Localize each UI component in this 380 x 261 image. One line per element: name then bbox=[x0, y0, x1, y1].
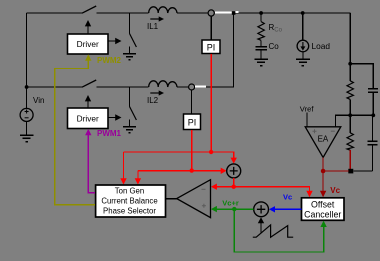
wire rail to Load bbox=[302, 13, 304, 40]
node junction Vc+r (green) bbox=[232, 207, 236, 211]
svg-text:Load: Load bbox=[312, 41, 331, 51]
arrow red into Ton Gen (line1) bbox=[120, 178, 126, 184]
resistor Rco bbox=[258, 13, 264, 46]
svg-text:Vc: Vc bbox=[283, 192, 292, 201]
node junction feedback mid left bbox=[348, 113, 352, 117]
arrow red into summer left bbox=[221, 168, 227, 174]
wire left input rail vertical bbox=[26, 13, 28, 108]
wire sense node 2 to PI2 bbox=[191, 90, 193, 114]
node junction feedback mid right bbox=[371, 113, 375, 117]
wire Vc blue from offset canceller to ramp summer bbox=[274, 208, 301, 210]
wire Load to ground bbox=[302, 52, 304, 59]
wire feedback mid tap to EA bbox=[336, 115, 374, 126]
arrow red into comparator minus bbox=[211, 184, 217, 190]
summing junction S6 (ramp adder) bbox=[254, 202, 269, 217]
capacitor C2 lower feedback bbox=[353, 115, 377, 171]
arrow PWM1 into driver U2 (purple) bbox=[85, 129, 91, 135]
capacitor Co bbox=[255, 47, 266, 50]
node Vin junction bbox=[25, 85, 29, 89]
inductor IL2 bbox=[149, 81, 177, 87]
arrow Vc into offset canceller (dark red) bbox=[320, 191, 326, 197]
wire EA output (dark red) bbox=[323, 157, 348, 191]
wire top rail to inductor bbox=[96, 12, 148, 14]
wire PI1 output (red) bbox=[210, 54, 212, 152]
svg-text:IL2: IL2 bbox=[147, 96, 159, 105]
node junction PI2 on line2 (red) bbox=[190, 168, 194, 172]
wire green feedback to offset canceller bottom bbox=[234, 209, 323, 252]
wire Vref to EA plus input bbox=[306, 112, 308, 126]
comparator U3 bbox=[177, 180, 211, 218]
driver U2 box bbox=[68, 108, 109, 129]
switch S1 (phase 1 high-side) bbox=[82, 6, 96, 13]
PI block 2 bbox=[184, 114, 201, 130]
svg-text:EA: EA bbox=[318, 135, 329, 144]
svg-text:Canceller: Canceller bbox=[304, 209, 341, 219]
wire comparator output to Ton Gen bbox=[166, 198, 178, 200]
capacitor C1 upper feedback bbox=[368, 89, 378, 116]
svg-text:Driver: Driver bbox=[77, 39, 99, 49]
svg-text:PI: PI bbox=[188, 118, 197, 128]
switch S2 (phase 2 high-side) bbox=[82, 80, 96, 87]
node junction summer output (red) bbox=[232, 185, 236, 189]
wire Co to ground bbox=[260, 50, 262, 59]
wire PWM1 net (purple) bbox=[88, 134, 95, 193]
resistor R1 upper feedback bbox=[347, 64, 353, 116]
resistor R2 lower feedback bbox=[347, 115, 353, 150]
arrow green into offset canceller bottom bbox=[320, 221, 326, 227]
arrow red into summer top bbox=[231, 158, 237, 164]
wire resistor R2 to bottom node (dark red) bbox=[349, 150, 351, 169]
arrow red into offset canceller top bbox=[306, 191, 312, 197]
source Vin bbox=[20, 108, 33, 121]
current source Load bbox=[297, 40, 309, 52]
wire top rail left segment bbox=[27, 12, 82, 14]
svg-text:Vin: Vin bbox=[33, 96, 44, 105]
wire red line2 to summer and Ton Gen bbox=[138, 171, 222, 179]
svg-text:Offset: Offset bbox=[311, 199, 335, 209]
wire sawtooth to ramp summer bbox=[260, 223, 262, 234]
wire PWM2 net (olive) bbox=[55, 60, 95, 205]
svg-text:Co: Co bbox=[274, 27, 282, 33]
svg-text:Driver: Driver bbox=[77, 113, 99, 123]
driver U1 gate arrow up bbox=[85, 20, 91, 34]
wire phase 2 rail left segment bbox=[27, 86, 82, 88]
arrow sawtooth into ramp summer bbox=[258, 217, 264, 223]
ground below sync switch 1 bbox=[123, 54, 136, 60]
switch S3 sync phase 1 bbox=[130, 13, 137, 53]
svg-text:Ton Gen: Ton Gen bbox=[115, 187, 144, 196]
node sense point phase 1 bbox=[208, 10, 214, 16]
wire inductor2 to sense node bbox=[177, 86, 188, 88]
switch S4 sync phase 2 bbox=[130, 87, 137, 127]
svg-text:PWM2: PWM2 bbox=[97, 56, 122, 65]
node junction Rco bbox=[259, 11, 263, 15]
ground below Load bbox=[296, 59, 310, 65]
node junction Load bbox=[301, 11, 305, 15]
arrow red into Ton Gen (line2) bbox=[135, 178, 141, 184]
arrow blue into ramp summer bbox=[269, 206, 275, 212]
wire white highlight segment on phase 2 rail bbox=[195, 85, 206, 87]
wire Vc+r green to comparator plus bbox=[216, 208, 254, 210]
wire red line1 to summer and Ton Gen bbox=[124, 152, 234, 179]
arrow green into comparator plus bbox=[211, 206, 217, 212]
IL2 current arrow bbox=[150, 90, 164, 95]
node junction PI1 on line1 (red) bbox=[209, 150, 213, 154]
wire PI2 output (red) bbox=[191, 130, 193, 171]
ground below Vin bbox=[20, 135, 34, 141]
svg-text:Vc: Vc bbox=[330, 186, 340, 195]
node junction phase2 riser bbox=[232, 11, 236, 15]
driver U1 box bbox=[68, 34, 109, 54]
ground below Co bbox=[254, 59, 267, 65]
node bottom feedback square bbox=[348, 169, 353, 174]
IL1 current arrow bbox=[150, 16, 164, 21]
wire Vin to ground bbox=[26, 121, 28, 135]
ground below sync switch 2 bbox=[123, 127, 136, 133]
driver U2 gate arrow right bbox=[108, 114, 121, 120]
wire phase 2 output and riser to top rail bbox=[195, 13, 234, 87]
error amplifier EA bbox=[305, 127, 341, 158]
Ton Gen block bbox=[96, 185, 166, 217]
offset canceller block bbox=[302, 198, 345, 221]
wire output rail drop right bbox=[349, 13, 351, 64]
svg-text:Vc+r: Vc+r bbox=[222, 199, 239, 208]
svg-text:Current Balance: Current Balance bbox=[101, 197, 157, 206]
driver U2 gate arrow up bbox=[85, 95, 91, 108]
wire feedback top branch bbox=[350, 64, 373, 89]
wire white highlight segments on top rail bbox=[215, 11, 239, 13]
wire phase 2 rail to inductor bbox=[96, 86, 148, 88]
svg-text:Vref: Vref bbox=[300, 104, 315, 113]
driver U1 gate arrow right bbox=[108, 38, 121, 44]
wire top rail right segment bbox=[214, 12, 350, 14]
summing junction S5 (current sum) bbox=[227, 164, 241, 178]
svg-text:PI: PI bbox=[207, 43, 216, 53]
node EA output junction (dark red) bbox=[321, 169, 326, 174]
sawtooth ramp waveform bbox=[253, 225, 293, 237]
arrow PWM2 into driver U1 (olive) bbox=[85, 54, 91, 60]
svg-text:IL1: IL1 bbox=[147, 22, 159, 31]
node junction feedback top bbox=[348, 62, 352, 66]
svg-text:Phase Selector: Phase Selector bbox=[103, 206, 156, 215]
wire summer output (red) down and to comparator / offset canceller bbox=[216, 178, 310, 192]
svg-text:Co: Co bbox=[269, 42, 280, 51]
wire inductor to sense node bbox=[177, 12, 208, 14]
Rco label bbox=[269, 23, 283, 33]
inductor IL1 bbox=[149, 7, 177, 13]
wire sense node 1 to PI1 bbox=[210, 16, 212, 40]
svg-text:PWM1: PWM1 bbox=[97, 129, 122, 138]
node sense point phase 2 bbox=[189, 84, 195, 90]
PI block 1 bbox=[202, 40, 220, 54]
